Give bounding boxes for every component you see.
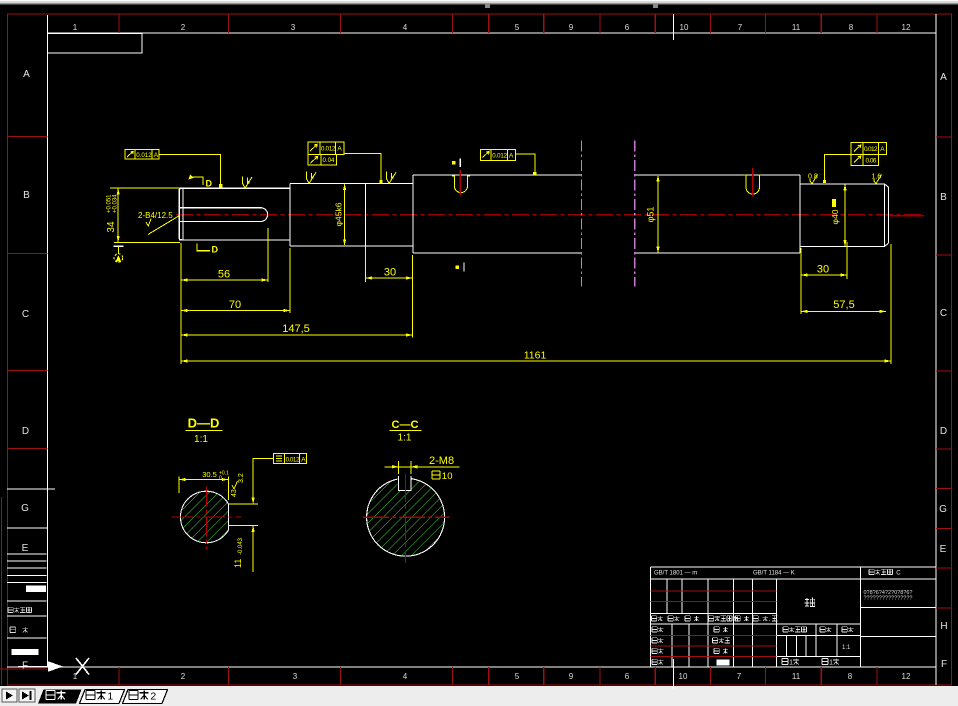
roughness symbol on seg2 (307, 172, 317, 184)
svg-text:2-M8: 2-M8 (429, 455, 454, 467)
svg-text:+0.034: +0.034 (113, 194, 119, 213)
svg-text:3: 3 (291, 23, 296, 32)
shaft segment 4 (φ40) (800, 184, 889, 247)
svg-text:9: 9 (569, 23, 574, 32)
left margin table (7, 554, 46, 638)
keyway U mark 1 (C-C position) (452, 176, 470, 193)
title block (651, 567, 936, 689)
svg-text:4: 4 (403, 672, 408, 681)
svg-text:6: 6 (625, 23, 630, 32)
svg-text:D: D (22, 426, 29, 437)
top zone numbers (73, 23, 911, 32)
svg-text:H: H (940, 621, 947, 632)
svg-text:1: 1 (789, 660, 793, 667)
top window strip (0, 0, 958, 8)
FCF4 two-row right (825, 142, 887, 181)
svg-text:1: 1 (73, 23, 78, 32)
svg-text:D: D (212, 245, 219, 255)
svg-text:1:1: 1:1 (842, 645, 851, 651)
dimension 56 (181, 228, 268, 364)
keyway U mark 1 centerline (459, 170, 461, 195)
svg-text:-0.043: -0.043 (238, 537, 244, 555)
svg-text:57,5: 57,5 (833, 299, 854, 311)
bottom tab bar (0, 686, 958, 706)
svg-text:11: 11 (792, 672, 801, 681)
svg-text:34: 34 (106, 221, 117, 233)
D-D centerlines (172, 487, 242, 550)
bottom center mark (673, 659, 675, 689)
svg-text:2: 2 (150, 691, 156, 703)
title block top texts (654, 569, 901, 576)
svg-text:B: B (940, 192, 947, 203)
datum A symbol (114, 246, 124, 262)
svg-text:30.5: 30.5 (202, 470, 217, 479)
right zone letters (939, 72, 948, 670)
svg-text:B: B (23, 190, 30, 201)
svg-text:1: 1 (829, 660, 833, 667)
left band separators (7, 137, 47, 449)
layout1 tab (80, 690, 125, 704)
svg-text:10: 10 (680, 23, 689, 32)
svg-text:1:1: 1:1 (398, 433, 412, 444)
svg-text:12: 12 (902, 672, 911, 681)
svg-text:70: 70 (229, 299, 241, 311)
keyway leader 2-B4/12.5 (138, 211, 180, 235)
keyway U mark 2 centerline (752, 168, 754, 197)
C-C dim 2-M8 深10 (385, 455, 460, 482)
svg-text:C: C (940, 308, 947, 319)
break lines (magenta) (582, 140, 635, 286)
UCS icon (18, 658, 89, 675)
svg-text:147,5: 147,5 (282, 323, 310, 335)
keyway U mark 2 (744, 175, 763, 194)
svg-text:φ45k6: φ45k6 (334, 202, 344, 226)
svg-text:1:1: 1:1 (194, 434, 208, 445)
svg-text:2: 2 (181, 672, 186, 681)
section D-D circle with keyway flat (180, 491, 228, 543)
svg-text:A: A (301, 456, 306, 463)
right band separators (936, 137, 952, 608)
svg-text:4: 4 (403, 23, 408, 32)
svg-text:F: F (22, 660, 28, 671)
FCF3 0.012 A (480, 150, 535, 174)
section mark D (bottom) (197, 244, 219, 255)
svg-text:????????????????: ???????????????? (864, 596, 913, 602)
small target mark above seg3 (452, 159, 460, 168)
svg-text:D—D: D—D (188, 416, 220, 431)
D-D dimension 30.5 (179, 470, 229, 500)
dimension 30 (left) (366, 247, 413, 283)
svg-text:43: 43 (231, 489, 238, 497)
left paper edge red (1, 497, 3, 685)
svg-text:1: 1 (107, 691, 113, 703)
svg-text:GB/T 1801 — m: GB/T 1801 — m (654, 571, 697, 577)
svg-text:5: 5 (515, 672, 520, 681)
keyway slot seg1 (179, 208, 267, 222)
shaft segment 2 (φ45k6) (290, 184, 413, 246)
FCF1 circular-runout 0.012 A (125, 150, 221, 187)
dimension φ45k6 (334, 184, 347, 246)
FCF2 two-row 0.012 A / 0.04 (308, 142, 381, 182)
D-D FCF symmetry 0.012 A (253, 454, 307, 503)
dimension φ51 (646, 175, 660, 253)
D-D keyway width dim 11 -0.043 (228, 498, 258, 573)
svg-text:0.06: 0.06 (866, 158, 877, 165)
svg-text:E: E (22, 543, 29, 554)
bottom center mark over block (673, 659, 675, 689)
svg-text:C: C (896, 571, 901, 577)
roughness symbol on seg2 right (387, 172, 397, 184)
title block white grid (651, 567, 936, 667)
model tab (active, dark) (38, 690, 82, 704)
D-D rotated roughness 3.2 (238, 473, 245, 483)
svg-text:3.2: 3.2 (238, 473, 245, 483)
svg-text:A: A (509, 152, 514, 159)
dimension 70 (181, 248, 290, 313)
svg-text:8: 8 (848, 672, 853, 681)
svg-text:A: A (154, 152, 159, 159)
svg-text:φ40: φ40 (830, 209, 840, 224)
svg-text:2: 2 (181, 23, 186, 32)
svg-text:GB/T 1184 — K: GB/T 1184 — K (753, 571, 795, 577)
svg-text:0.012: 0.012 (286, 456, 300, 463)
section D-D title (186, 416, 223, 446)
svg-text:F: F (941, 659, 947, 670)
roughness symbol on seg1 (243, 176, 253, 188)
svg-text:C—C: C—C (392, 419, 419, 431)
svg-text:30: 30 (817, 264, 829, 276)
svg-text:7: 7 (737, 672, 742, 681)
top center mark (673, 14, 675, 40)
shaft segment 3 (φ51, with break) (413, 175, 800, 253)
svg-text:0.012: 0.012 (864, 146, 878, 153)
layout2 tab (123, 690, 168, 704)
svg-text:A: A (880, 146, 885, 153)
svg-text:10: 10 (679, 672, 688, 681)
shaft segment 1 (keyway journal) (179, 188, 290, 240)
svg-text:1161: 1161 (524, 350, 547, 362)
C-C centerlines (363, 474, 450, 563)
svg-text:D: D (206, 179, 213, 189)
bottom zone numbers (73, 672, 911, 681)
svg-text:A: A (940, 72, 947, 83)
svg-text:30: 30 (384, 267, 396, 279)
svg-text:C: C (22, 309, 29, 320)
top-left margin block (47, 34, 142, 54)
svg-text:5: 5 (515, 23, 520, 32)
left zone letters (21, 69, 30, 671)
svg-text:1: 1 (442, 471, 447, 482)
svg-text:0.012: 0.012 (136, 152, 152, 159)
section mark D (top) (189, 175, 213, 189)
shaft centerline (176, 214, 924, 216)
svg-text:φ51: φ51 (646, 207, 656, 223)
svg-text:3: 3 (293, 672, 298, 681)
svg-text:8: 8 (849, 23, 854, 32)
svg-text:G: G (21, 503, 29, 514)
dimension 57,5 (801, 299, 886, 313)
svg-text:11: 11 (792, 23, 801, 32)
dimension 1161 (181, 244, 891, 364)
part name (805, 598, 815, 607)
svg-text:G: G (939, 504, 947, 515)
dimension 147,5 (181, 255, 412, 338)
svg-text:A: A (337, 146, 342, 153)
svg-text:D: D (940, 426, 947, 437)
roughness 1.6 on seg4 end (872, 174, 882, 184)
dimension 34 +0.051/+0.034 (left) (106, 188, 180, 242)
svg-text:0.04: 0.04 (323, 157, 336, 164)
svg-text:2-B4/12.5: 2-B4/12.5 (138, 211, 173, 220)
small target mark below seg3 (456, 263, 465, 272)
section C-C title (390, 419, 422, 444)
svg-text:6: 6 (625, 672, 630, 681)
svg-text:12: 12 (902, 23, 911, 32)
svg-text:56: 56 (218, 269, 230, 281)
svg-text:E: E (940, 544, 947, 555)
svg-text:9: 9 (569, 672, 574, 681)
bottom band zone ticks (119, 667, 877, 685)
svg-text:11: 11 (233, 559, 243, 568)
title block red lines (651, 591, 777, 657)
svg-text:0: 0 (447, 471, 452, 482)
section C-C circle (367, 476, 445, 556)
svg-text:0: 0 (219, 476, 222, 482)
svg-text:7: 7 (738, 23, 743, 32)
dimension φ40 (830, 184, 847, 247)
svg-text:0.012: 0.012 (492, 152, 507, 159)
svg-text:0.012: 0.012 (321, 146, 336, 153)
dimension 30 (right) (801, 242, 847, 314)
title row labels (652, 616, 854, 665)
centerline overrun right (890, 215, 924, 217)
roughness 0.8 on seg4 (808, 174, 818, 184)
top band zone ticks (119, 14, 877, 33)
svg-text:A: A (23, 69, 30, 80)
